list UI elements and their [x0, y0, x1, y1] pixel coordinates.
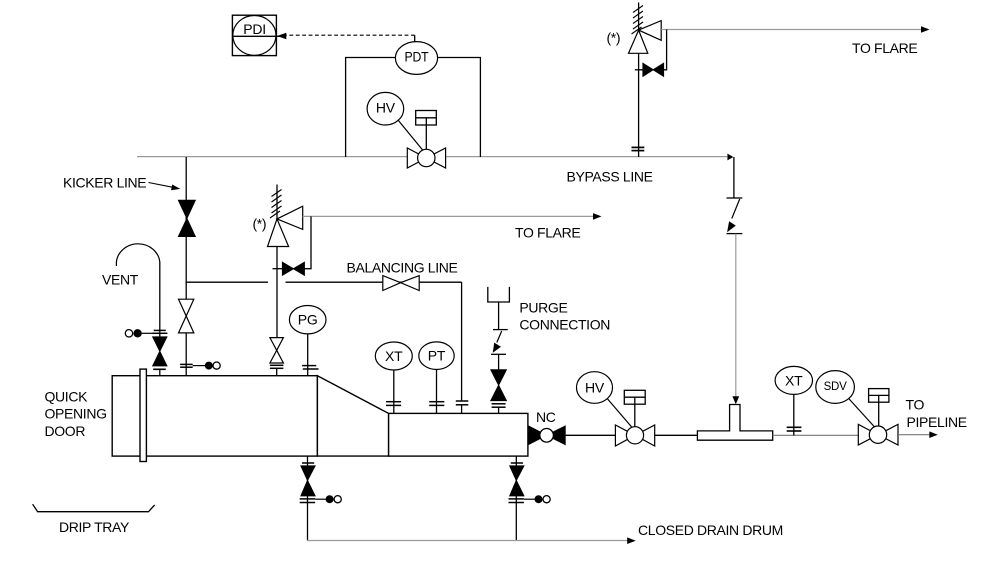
valve closed gate at PSV1	[643, 63, 664, 76]
svg-text:KICKER LINE: KICKER LINE	[63, 175, 146, 191]
actuator of bypass valve	[416, 111, 437, 150]
wire vent pipe	[159, 262, 161, 337]
arrow to closed drain drum	[627, 537, 636, 544]
wire left drain drop	[307, 456, 309, 541]
flange PT tap	[429, 402, 444, 406]
wire purge lower stem	[498, 354, 500, 369]
wire PSV1 inlet riser	[638, 53, 640, 157]
wire vent gooseneck	[116, 244, 159, 266]
flange XT tap	[386, 402, 401, 406]
valve closed gate on kicker line	[178, 200, 195, 236]
wire flare header 2	[303, 215, 596, 217]
svg-text:BALANCING LINE: BALANCING LINE	[347, 260, 458, 276]
svg-text:XT: XT	[385, 348, 403, 364]
fitting barred tee	[697, 405, 772, 441]
flange on vent pipe	[152, 330, 167, 333]
valve closed gate left drain	[301, 466, 315, 496]
instrument XT on barrel	[375, 342, 412, 370]
vessel pig launcher barrel	[112, 376, 317, 456]
wire SDV valve to pipeline	[898, 434, 932, 436]
wire PSV2 bypass stub	[273, 268, 283, 270]
vessel reducer section	[317, 376, 388, 456]
relief valve PSV2 body	[268, 206, 303, 246]
svg-text:TO: TO	[906, 397, 925, 413]
relief valve PSV1 body	[629, 21, 662, 54]
flange kicker to vessel	[180, 364, 193, 367]
flange purge to barrel	[492, 404, 506, 414]
svg-text:DOOR: DOOR	[45, 423, 86, 439]
valve ball open HV2	[615, 425, 654, 446]
wire bypass riser to tee	[735, 234, 737, 400]
arrow into tee	[732, 396, 739, 404]
instrument SDV	[816, 371, 855, 404]
flange on PSV1 riser	[632, 147, 645, 150]
wire PSV2 outlet drop	[304, 216, 311, 268]
instrument PDT	[395, 42, 437, 75]
svg-text:(*): (*)	[253, 216, 267, 232]
svg-text:PURGE: PURGE	[519, 299, 567, 315]
svg-text:TO FLARE: TO FLARE	[515, 225, 580, 241]
wire PG tap	[307, 334, 309, 376]
svg-text:HV: HV	[376, 100, 396, 116]
drain plug kicker	[193, 362, 221, 370]
valve gate open on kicker line	[179, 299, 194, 333]
arrow to pipeline	[929, 431, 938, 438]
wire dashed signal PDT to PDI	[277, 33, 415, 42]
drain plug left drain	[315, 495, 341, 503]
svg-text:PDT: PDT	[405, 49, 430, 65]
relief valve PSV1 spring	[632, 3, 644, 35]
svg-text:PIPELINE: PIPELINE	[907, 414, 967, 430]
wire tee to SDV valve	[773, 434, 859, 436]
wire bypass corner drop	[733, 157, 735, 198]
drain plug right drain	[524, 495, 550, 503]
svg-text:VENT: VENT	[102, 272, 139, 288]
svg-text:PDI: PDI	[243, 21, 266, 37]
svg-text:XT: XT	[785, 372, 803, 388]
flange PSV2 riser to vessel	[270, 365, 284, 375]
svg-text:PT: PT	[428, 348, 446, 364]
label PURGE CONNECTION	[519, 299, 610, 332]
wire purge stem	[498, 302, 500, 330]
label QUICK OPENING DOOR	[45, 389, 107, 440]
wire PSV1 outlet drop	[664, 30, 667, 70]
wire PSV1 bypass stub	[635, 69, 643, 71]
wire PDT loop	[346, 58, 396, 158]
wire PSV2 inlet riser	[276, 247, 278, 338]
wire XT2 tap	[793, 394, 795, 435]
wire balancing line	[186, 282, 461, 400]
arrow bypass corner	[727, 154, 733, 161]
valve ball closed NC	[528, 426, 565, 445]
wire closed drain header	[307, 540, 630, 542]
svg-text:DRIP TRAY: DRIP TRAY	[59, 519, 130, 535]
wire NC to HV valve	[565, 434, 615, 436]
wire main gray flow line	[137, 156, 727, 158]
svg-text:TO FLARE: TO FLARE	[852, 40, 917, 56]
valve closed gate on vent	[153, 337, 167, 366]
valve gate open on PSV2 riser	[270, 338, 284, 363]
purge connection funnel	[488, 287, 510, 302]
svg-text:NC: NC	[536, 409, 556, 425]
wire HV to valve stem	[398, 120, 426, 154]
svg-text:QUICK: QUICK	[45, 389, 89, 405]
svg-text:PG: PG	[298, 312, 318, 328]
arrow to flare 1	[921, 26, 930, 33]
svg-text:OPENING: OPENING	[45, 406, 107, 422]
valve closed gate right drain	[510, 466, 524, 496]
quick opening door bar	[140, 369, 146, 461]
wire HV2 valve to tee	[655, 434, 698, 436]
valve gate open on balancing line	[383, 276, 419, 291]
svg-text:CLOSED DRAIN DRUM: CLOSED DRAIN DRUM	[638, 522, 783, 538]
flange left drain bottom	[300, 499, 315, 503]
instrument PDI	[232, 15, 280, 55]
instrument PT on barrel	[419, 342, 454, 370]
svg-text:BYPASS LINE: BYPASS LINE	[567, 169, 653, 185]
flange PG to vessel	[302, 366, 318, 369]
flange balancing line to barrel	[456, 401, 469, 413]
relief valve PSV2 spring	[270, 185, 282, 219]
valve ball open SDV	[858, 424, 898, 445]
arrow to flare 2	[593, 213, 602, 220]
wire SDV to valve stem	[849, 399, 878, 430]
spec break on purge line	[491, 330, 508, 355]
flange right drain bottom	[509, 499, 524, 503]
wire kicker line riser	[185, 157, 187, 376]
svg-text:HV: HV	[585, 380, 605, 396]
instrument XT at pipeline	[775, 366, 812, 394]
drain plug vent	[125, 329, 152, 337]
wire flare header 1	[661, 29, 928, 31]
wire XT tap	[393, 370, 395, 413]
flange vent to vessel	[153, 369, 166, 375]
valve closed gate on purge	[491, 370, 507, 401]
drip tray	[33, 504, 155, 512]
valve bypass ball valve HV	[407, 148, 445, 168]
spec break on bypass riser	[727, 198, 743, 234]
vessel minor barrel	[389, 413, 528, 456]
instrument HV (bypass valve controller)	[367, 92, 404, 125]
svg-text:(*): (*)	[607, 30, 621, 46]
svg-text:CONNECTION: CONNECTION	[519, 317, 610, 333]
svg-text:SDV: SDV	[824, 381, 848, 393]
wire HV2 to valve stem	[607, 399, 634, 430]
instrument PG	[289, 306, 326, 334]
actuator of SDV valve	[869, 389, 889, 427]
actuator of HV2 valve	[624, 390, 645, 427]
arrow kicker leader	[149, 183, 181, 191]
flange right drain top	[511, 462, 523, 464]
wire PT tap	[436, 370, 438, 414]
valve closed gate at PSV2	[282, 262, 304, 275]
wire right drain drop	[515, 456, 517, 541]
capped connection XT2	[787, 427, 802, 431]
instrument HV at launcher outlet	[577, 372, 613, 404]
flange left drain top	[302, 462, 314, 464]
label TO PIPELINE	[906, 397, 967, 431]
